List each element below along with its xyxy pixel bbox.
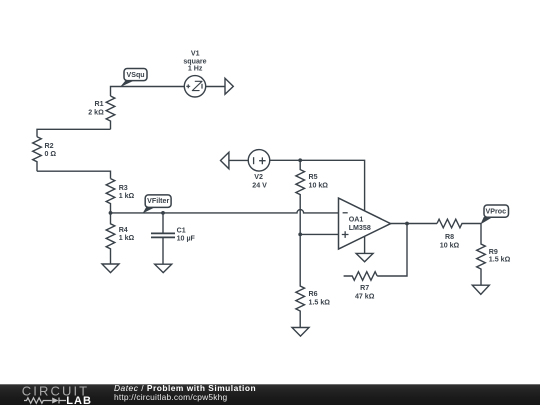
svg-text:C1: C1	[177, 226, 186, 234]
svg-text:http://circuitlab.com/cpw5khg: http://circuitlab.com/cpw5khg	[114, 392, 227, 402]
resistor R5	[296, 160, 305, 234]
R7 value labels	[355, 284, 375, 301]
ground under C1	[155, 264, 172, 272]
svg-text:LM358: LM358	[349, 224, 371, 232]
V2 value labels	[252, 173, 267, 189]
op-amp V- pin to ground	[364, 236, 366, 253]
ground under op-amp	[356, 253, 373, 261]
resistor R6	[296, 234, 305, 327]
node flag VSqu	[120, 69, 147, 88]
svg-text:24 V: 24 V	[252, 181, 267, 189]
svg-text:R5: R5	[309, 173, 318, 181]
junction dot at C1 top	[161, 211, 165, 215]
resistor R7	[344, 272, 378, 281]
resistor R8	[437, 219, 481, 228]
node flag VFilter	[143, 195, 171, 214]
ground under R4	[102, 264, 119, 273]
svg-text:V2: V2	[254, 173, 263, 181]
svg-text:1 kΩ: 1 kΩ	[119, 234, 135, 242]
R4 value labels	[119, 226, 135, 242]
svg-text:2 kΩ: 2 kΩ	[88, 108, 104, 116]
wire to op-amp plus input	[300, 233, 338, 235]
svg-text:1.5 kΩ: 1.5 kΩ	[309, 298, 331, 306]
ground under R9	[472, 285, 489, 294]
C1 value labels	[177, 226, 196, 242]
wire terminal to V2	[229, 159, 248, 161]
resistor R2	[33, 137, 42, 172]
wire VSqu node horizontal to V1	[111, 87, 185, 97]
svg-text:LAB: LAB	[66, 395, 92, 405]
svg-text:VProc: VProc	[486, 208, 507, 216]
node VFilter junction dot	[109, 211, 113, 215]
V1 value labels	[183, 49, 206, 72]
svg-text:R6: R6	[309, 290, 318, 298]
svg-text:R2: R2	[45, 142, 54, 150]
R2 value labels	[45, 142, 57, 158]
ground under R6	[292, 328, 309, 337]
junction dot at output	[405, 222, 409, 226]
svg-text:R4: R4	[119, 226, 128, 234]
voltage source V1	[184, 76, 205, 97]
svg-text:R8: R8	[445, 233, 454, 241]
R9 value labels	[489, 248, 511, 264]
svg-text:VSqu: VSqu	[127, 71, 145, 79]
wire V1 to terminal	[206, 86, 225, 88]
OA1 name labels	[349, 216, 371, 232]
resistor R3	[106, 179, 115, 213]
svg-text:R7: R7	[360, 284, 369, 292]
junction dot at R5 top	[298, 158, 302, 162]
voltage source V2	[248, 150, 270, 172]
R3 value labels	[119, 184, 135, 200]
footer bar	[0, 384, 540, 405]
op-amp OA1 LM358	[339, 198, 391, 249]
resistor R9	[477, 224, 486, 286]
svg-text:R3: R3	[119, 184, 128, 192]
resistor R1	[106, 96, 115, 129]
capacitor C1	[151, 213, 175, 264]
R8 value labels	[440, 233, 460, 249]
svg-text:VFilter: VFilter	[147, 197, 169, 205]
junction dot at plus input	[298, 233, 302, 237]
R5 value labels	[309, 173, 329, 189]
svg-text:OA1: OA1	[349, 216, 364, 224]
svg-text:10 kΩ: 10 kΩ	[440, 242, 460, 250]
svg-text:1 Hz: 1 Hz	[188, 65, 203, 73]
wire op-amp output	[391, 223, 437, 225]
R6 value labels	[309, 290, 331, 306]
svg-text:10 µF: 10 µF	[177, 235, 196, 243]
svg-text:47 kΩ: 47 kΩ	[355, 292, 375, 300]
svg-text:1.5 kΩ: 1.5 kΩ	[489, 256, 511, 264]
svg-text:R9: R9	[489, 248, 498, 256]
wire V2 to op-amp V+ rail	[270, 160, 365, 211]
wire R1 to R2	[37, 129, 111, 136]
wire feedback from output down	[377, 224, 407, 277]
CircuitLab logo	[22, 384, 92, 405]
R1 value labels	[88, 100, 104, 116]
svg-text:0 Ω: 0 Ω	[45, 150, 57, 158]
node flag VProc	[480, 205, 508, 224]
svg-text:1 kΩ: 1 kΩ	[119, 192, 135, 200]
wire VFilter node to op-amp minus input (with hop)	[111, 210, 339, 213]
resistor R4	[106, 213, 115, 264]
wire R2 to R3	[37, 171, 111, 178]
svg-text:10 kΩ: 10 kΩ	[309, 181, 329, 189]
terminal flag left of V2	[221, 152, 229, 169]
svg-text:V1: V1	[191, 49, 200, 57]
terminal flag right of V1	[225, 78, 233, 94]
svg-text:R1: R1	[95, 100, 104, 108]
